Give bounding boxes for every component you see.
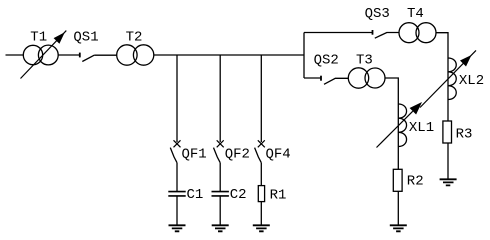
svg-text:QF1: QF1 (182, 147, 207, 163)
svg-text:QF2: QF2 (225, 147, 250, 163)
svg-text:QS3: QS3 (365, 6, 390, 22)
svg-text:T1: T1 (30, 30, 47, 46)
svg-text:QS2: QS2 (314, 52, 339, 68)
svg-text:T3: T3 (356, 52, 373, 68)
svg-text:R3: R3 (456, 127, 473, 143)
svg-text:T2: T2 (126, 30, 143, 46)
svg-text:XL1: XL1 (409, 120, 434, 136)
svg-text:C2: C2 (230, 187, 247, 203)
svg-text:QF4: QF4 (266, 147, 291, 163)
svg-text:XL2: XL2 (459, 73, 484, 89)
svg-text:T4: T4 (407, 6, 424, 22)
svg-text:R2: R2 (407, 174, 424, 190)
svg-text:R1: R1 (270, 187, 287, 203)
svg-text:QS1: QS1 (73, 30, 98, 46)
svg-text:C1: C1 (187, 187, 204, 203)
